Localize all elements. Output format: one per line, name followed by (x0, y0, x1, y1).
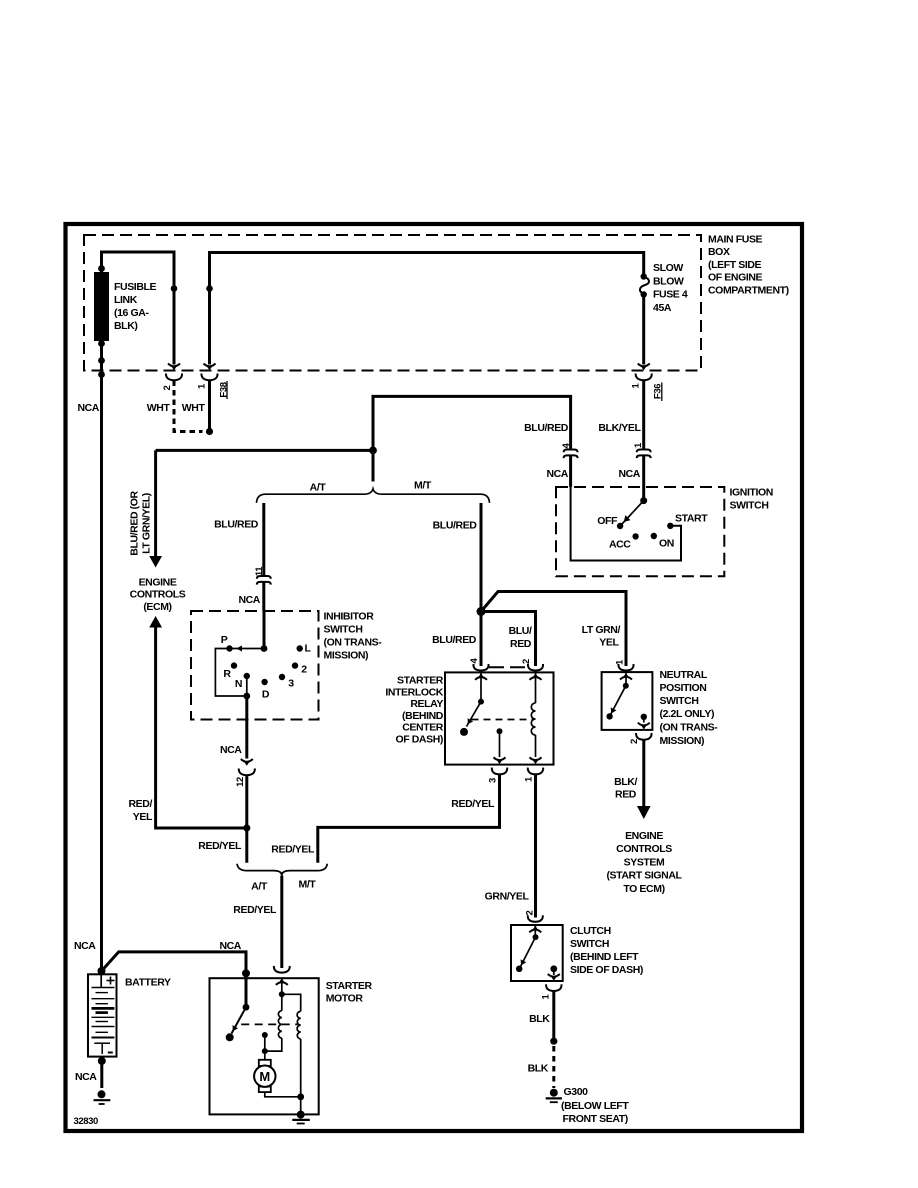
label BLU/ RED (509, 625, 532, 650)
node motor/coil1 junction (262, 1048, 268, 1054)
neutral switch entry arrow (620, 673, 632, 680)
svg-text:NCA: NCA (75, 1071, 97, 1083)
wire fuse F4 to F36 (642, 296, 645, 365)
relay pin 3 contact (497, 728, 503, 734)
relay switch feed (480, 673, 482, 702)
node battery positive (98, 967, 106, 975)
svg-text:NCA: NCA (546, 468, 568, 480)
svg-text:BOX: BOX (708, 246, 730, 258)
svg-text:OF ENGINE: OF ENGINE (708, 272, 763, 284)
wire ECM feed down (154, 450, 157, 556)
contact N (244, 673, 250, 679)
neutral switch blade (608, 686, 625, 717)
svg-text:BLOW: BLOW (653, 275, 684, 287)
arrow to engine controls system (637, 806, 651, 819)
neutral position switch box (602, 672, 653, 730)
contact ON (651, 533, 657, 539)
node starter NCA branch (242, 969, 250, 977)
svg-text:YEL: YEL (133, 811, 153, 823)
main fuse box (dashed outline) (84, 235, 701, 371)
label LT GRN/ YEL (582, 624, 621, 649)
node on F38-2 drop (171, 285, 178, 292)
svg-text:BLK: BLK (528, 1063, 549, 1075)
svg-text:COMPARTMENT): COMPARTMENT) (708, 284, 789, 296)
ground G300 (546, 1089, 562, 1103)
clutch output contact (550, 965, 557, 972)
arrow from ECM (RED/YEL return) (149, 616, 162, 628)
starter entry arrow (276, 978, 288, 985)
contact 2 (292, 662, 298, 668)
starter solenoid blade (230, 1007, 246, 1033)
svg-text:45A: 45A (653, 302, 672, 314)
contact ACC (632, 533, 638, 539)
node WHT junction (206, 428, 213, 435)
ignition switch label (730, 487, 773, 512)
svg-text:CONTROLS: CONTROLS (130, 589, 186, 601)
clutch switch label (570, 925, 643, 976)
node starter solenoid pivot (243, 1004, 250, 1011)
node motor ground junction (297, 1093, 304, 1100)
fuse F4 label (653, 262, 688, 314)
wire BLK/YEL to switch common (642, 455, 645, 500)
node neutral blade top (623, 683, 629, 689)
svg-text:BLK/: BLK/ (614, 776, 637, 788)
svg-text:3: 3 (488, 778, 499, 783)
connector relay pin 1 cup (528, 768, 543, 775)
svg-text:SWITCH: SWITCH (730, 500, 769, 512)
svg-text:(ON TRANS-: (ON TRANS- (660, 722, 719, 734)
inline connector 11 (257, 576, 271, 585)
relay pin 2 entry arrow (530, 673, 542, 680)
relay switch blade (465, 702, 481, 727)
svg-text:NEUTRAL: NEUTRAL (660, 669, 708, 681)
svg-text:POSITION: POSITION (660, 682, 707, 694)
svg-text:SWITCH: SWITCH (570, 938, 609, 950)
svg-text:RED/YEL: RED/YEL (451, 798, 495, 810)
svg-text:OFF: OFF (597, 515, 618, 527)
clutch pin 1 exit arrow (548, 974, 560, 981)
brace A/T-M/T split (257, 489, 490, 503)
wire motor to ground (265, 1092, 301, 1097)
svg-text:ON: ON (659, 538, 674, 550)
wire P to N to output (215, 649, 246, 697)
fusible link body (94, 272, 109, 341)
svg-text:12: 12 (235, 777, 246, 787)
svg-text:ACC: ACC (609, 539, 631, 551)
starter blade contact (226, 1033, 234, 1041)
connector F36 pin 1 arrow (638, 364, 650, 371)
connector name F36 (653, 383, 664, 402)
relay pin 1 exit arrow (530, 757, 542, 764)
svg-text:A/T: A/T (310, 482, 327, 494)
brace A/T-M/T merge (237, 864, 327, 876)
border frame (66, 224, 803, 1131)
svg-text:D: D (262, 689, 270, 701)
wire NCA battery to starter motor (102, 952, 247, 1007)
contact START (667, 523, 673, 529)
ignition switch box (dashed) (556, 487, 724, 576)
svg-text:WHT: WHT (147, 402, 171, 414)
svg-text:FRONT SEAT): FRONT SEAT) (563, 1113, 628, 1125)
battery box (88, 974, 117, 1056)
svg-text:NCA: NCA (238, 594, 260, 606)
starter solenoid feed (281, 978, 283, 994)
node BLU/RED junction (369, 447, 377, 455)
solenoid coil 2 (282, 994, 301, 1114)
clutch switch box (511, 925, 563, 981)
connector F38 pin 2 cup (166, 374, 182, 381)
starter motor contact (262, 1032, 268, 1038)
svg-text:LT GRN/: LT GRN/ (582, 624, 621, 636)
arrow to ENGINE CONTROLS (ECM) (149, 556, 162, 568)
connector F38 pin 1 arrow (204, 364, 216, 371)
svg-text:11: 11 (254, 566, 265, 576)
neutral output contact (641, 714, 647, 720)
wire inhibitor output down (245, 696, 248, 759)
fusible link label (114, 281, 157, 332)
node at fuse box edge (98, 371, 105, 378)
svg-text:NCA: NCA (219, 940, 241, 952)
connector relay pin 4 cup (473, 664, 488, 671)
inhibitor switch box (dashed) (191, 611, 319, 720)
node RED/YEL junction (243, 824, 250, 831)
svg-text:MAIN FUSE: MAIN FUSE (708, 234, 763, 246)
svg-text:2: 2 (629, 739, 640, 744)
svg-text:NCA: NCA (77, 402, 99, 414)
node clutch blade top (533, 934, 539, 940)
svg-text:3: 3 (288, 678, 294, 690)
svg-text:BLK: BLK (529, 1013, 550, 1025)
wire battery negative (100, 1057, 103, 1088)
wire BLU/RED ignition pin4 riser (373, 396, 571, 450)
svg-text:(BEHIND: (BEHIND (402, 710, 444, 722)
battery plates (92, 988, 115, 1038)
svg-text:BLU/RED (OR: BLU/RED (OR (129, 490, 141, 555)
svg-text:STARTER: STARTER (326, 980, 373, 992)
connector neutral switch pin 1 cup (618, 664, 633, 671)
label BLU/RED (OR LT GRN/YEL) rotated (129, 490, 153, 555)
node inhibitor output (243, 693, 250, 700)
wire M/T branch BLU/RED (480, 503, 483, 612)
relay coil (531, 673, 535, 757)
svg-text:(BEHIND LEFT: (BEHIND LEFT (570, 951, 639, 963)
wire ignition pin4 into box (569, 455, 572, 487)
inline connector 1 (BLK/YEL) (637, 450, 651, 459)
contact L (297, 645, 303, 651)
neutral position switch label (660, 669, 719, 747)
neutral blade contact (606, 713, 612, 719)
node switch pivot (640, 497, 647, 504)
svg-text:LT GRN/YEL): LT GRN/YEL) (141, 493, 153, 554)
relay pin 3 exit arrow (494, 757, 506, 764)
fuse F4 slow blow (45A) (640, 273, 649, 297)
motor M (254, 1060, 275, 1092)
svg-text:32830: 32830 (74, 1116, 99, 1127)
node below fusible link (98, 357, 105, 364)
wire N stub (246, 676, 248, 696)
inhibitor switch label (324, 611, 383, 662)
svg-text:(ECM): (ECM) (143, 601, 171, 613)
contact OFF (617, 523, 623, 529)
wire bus to slow blow fuse and F38 pin 1 (210, 253, 644, 365)
clutch switch entry arrow (529, 926, 541, 933)
svg-text:NCA: NCA (618, 468, 640, 480)
neutral pin 2 exit arrow (638, 723, 650, 730)
wire fusible link bottom / NCA to battery (100, 341, 103, 971)
wire into inhibitor switch (262, 582, 265, 649)
wire F38 pin 1 to WHT junction (208, 381, 211, 432)
ground battery (94, 1090, 111, 1104)
svg-text:SWITCH: SWITCH (324, 624, 363, 636)
wire to neutral position switch (LT GRN/YEL) (481, 592, 626, 667)
svg-text:RED/: RED/ (129, 798, 153, 810)
wire to relay pin 2 (481, 612, 536, 667)
connector relay pin 3 cup (492, 768, 507, 775)
node fusible link top (98, 265, 105, 272)
svg-text:MISSION): MISSION) (660, 735, 705, 747)
svg-text:BLU/RED: BLU/RED (524, 422, 569, 434)
svg-text:BLU/RED: BLU/RED (214, 519, 259, 531)
contact 3 (279, 674, 285, 680)
label BLK/ RED (614, 776, 637, 801)
svg-text:RED/YEL: RED/YEL (271, 844, 315, 856)
svg-text:G300: G300 (564, 1086, 589, 1098)
svg-text:L: L (304, 643, 311, 655)
svg-text:SYSTEM: SYSTEM (624, 856, 665, 868)
svg-text:(2.2L ONLY): (2.2L ONLY) (660, 708, 715, 720)
clutch switch blade (518, 937, 535, 968)
wire to relay pin 4 (480, 612, 483, 667)
svg-text:F38: F38 (218, 382, 229, 397)
svg-text:GRN/YEL: GRN/YEL (485, 891, 530, 903)
svg-text:(ON TRANS-: (ON TRANS- (324, 637, 383, 649)
connector name F38 (218, 381, 229, 399)
starter motor label (326, 980, 373, 1005)
svg-text:NCA: NCA (220, 744, 242, 756)
svg-text:RELAY: RELAY (410, 698, 443, 710)
ground starter motor (292, 1111, 310, 1124)
relay mechanical link (dashed) (472, 719, 535, 721)
svg-text:(16 GA-: (16 GA- (114, 307, 149, 319)
starter mechanical link (dashed) (241, 1023, 297, 1025)
svg-text:IGNITION: IGNITION (730, 487, 773, 499)
svg-text:ENGINE: ENGINE (625, 830, 663, 842)
svg-text:RED: RED (615, 789, 637, 801)
svg-text:LINK: LINK (114, 294, 138, 306)
contact R (231, 662, 237, 668)
svg-text:CENTER: CENTER (402, 722, 444, 734)
node relay switch pivot (478, 699, 484, 705)
svg-text:BLK/YEL: BLK/YEL (598, 422, 641, 434)
svg-text:INTERLOCK: INTERLOCK (385, 686, 443, 698)
svg-text:FUSE 4: FUSE 4 (653, 289, 688, 301)
svg-text:START: START (675, 513, 708, 525)
svg-text:2: 2 (162, 385, 173, 390)
inhibitor wiper to P (230, 645, 265, 651)
starter interlock relay label (385, 675, 443, 746)
node on F38-1 drop (206, 285, 213, 292)
wire BLK solid (552, 991, 555, 1041)
svg-text:(LEFT SIDE: (LEFT SIDE (708, 259, 762, 271)
svg-text:P: P (221, 634, 228, 646)
svg-text:SLOW: SLOW (653, 262, 683, 274)
contact P (226, 645, 232, 651)
connector neutral pin 2 cup (636, 733, 651, 740)
battery plus symbol (107, 977, 115, 985)
connector relay pin 2 cup (528, 664, 543, 671)
node battery negative (98, 1057, 106, 1065)
svg-text:STARTER: STARTER (397, 675, 444, 687)
wire WHT dashed jumper (174, 381, 203, 432)
svg-text:ENGINE: ENGINE (139, 577, 177, 589)
wire BLK/RED down (642, 740, 645, 807)
connector clutch pin 2 cup (528, 915, 543, 922)
solenoid coil 1 (265, 994, 282, 1051)
svg-text:RED/YEL: RED/YEL (198, 840, 242, 852)
label ENGINE CONTROLS SYSTEM (606, 830, 682, 895)
wire ignition internal START path (571, 487, 681, 561)
relay pin 3 wire (499, 731, 501, 757)
svg-text:R: R (223, 668, 231, 680)
battery internal feed (100, 974, 102, 987)
svg-text:WHT: WHT (182, 402, 206, 414)
label G300 (BELOW LEFT FRONT SEAT) (561, 1086, 629, 1125)
ignition switch blade (620, 501, 644, 526)
connector 12 arrow (241, 759, 253, 766)
wire GRN/YEL relay pin 1 to clutch switch (534, 775, 537, 918)
svg-text:SWITCH: SWITCH (660, 695, 699, 707)
inline connector 4 (BLU/RED) (564, 450, 578, 459)
contact D (261, 679, 267, 685)
svg-text:TO ECM): TO ECM) (623, 883, 664, 895)
battery minus symbol (108, 1052, 113, 1054)
node BLK splice (550, 1038, 557, 1045)
svg-text:BLK): BLK) (114, 320, 137, 332)
connector starter input cup (274, 966, 290, 973)
svg-text:CONTROLS: CONTROLS (616, 843, 672, 855)
svg-text:2: 2 (301, 664, 307, 676)
node solenoid coils junction (279, 991, 285, 997)
svg-text:INHIBITOR: INHIBITOR (324, 611, 375, 623)
battery negative tee (94, 1043, 110, 1054)
wire BLK dashed (552, 1046, 555, 1088)
neutral output wire (643, 717, 645, 723)
label ENGINE CONTROLS (ECM) (130, 577, 186, 614)
connector 12 cup (239, 769, 255, 776)
clutch output wire (553, 969, 555, 975)
wire A/T branch BLU/RED (262, 503, 265, 576)
svg-text:N: N (235, 678, 242, 690)
wire motor feed (264, 1035, 266, 1060)
svg-text:OF DASH): OF DASH) (395, 734, 443, 746)
svg-text:BLU/: BLU/ (509, 625, 532, 637)
clutch feed (534, 926, 536, 937)
wire BLU/RED to ECM branch (156, 449, 373, 452)
connector clutch pin 1 cup (546, 984, 561, 991)
connector F38 pin 2 arrow (168, 364, 180, 371)
wire RED/YEL to A/T merge (245, 776, 248, 863)
svg-text:2: 2 (525, 910, 536, 915)
connector housing dashes (489, 666, 527, 668)
wire RED/YEL relay pin 3 to M/T merge (318, 775, 500, 863)
svg-text:SIDE OF DASH): SIDE OF DASH) (570, 964, 643, 976)
svg-text:CLUTCH: CLUTCH (570, 925, 611, 937)
svg-text:A/T: A/T (251, 881, 268, 893)
wire BLK/YEL F36 to ignition switch (642, 381, 645, 450)
svg-text:M/T: M/T (299, 879, 317, 891)
connector F38 pin 1 cup (201, 374, 217, 381)
svg-text:M: M (259, 1069, 270, 1084)
svg-text:BATTERY: BATTERY (125, 977, 171, 989)
svg-text:RED: RED (510, 638, 532, 650)
svg-text:M/T: M/T (414, 480, 432, 492)
relay pin 4 entry arrow (475, 673, 487, 680)
relay contact (460, 728, 468, 736)
wire RED/YEL to starter motor (280, 876, 283, 968)
svg-text:BLU/RED: BLU/RED (432, 634, 477, 646)
starter motor box (210, 978, 319, 1114)
node inhibitor common (261, 645, 268, 652)
node M/T junction (477, 607, 486, 616)
svg-text:MOTOR: MOTOR (326, 993, 364, 1005)
wire fusible link top bus to F38 pin 2 (102, 252, 175, 365)
svg-text:(BELOW LEFT: (BELOW LEFT (561, 1100, 629, 1112)
label RED/ YEL (129, 798, 153, 823)
wire RED/YEL return (156, 628, 247, 829)
svg-text:2: 2 (521, 659, 532, 664)
node fusible link bottom (98, 340, 105, 347)
svg-text:(START SIGNAL: (START SIGNAL (606, 870, 682, 882)
svg-text:RED/YEL: RED/YEL (233, 904, 277, 916)
svg-text:YEL: YEL (599, 637, 619, 649)
svg-text:MISSION): MISSION) (324, 650, 369, 662)
wire junction to A/T-M/T brace (372, 450, 375, 481)
neutral switch feed (625, 673, 627, 686)
starter interlock relay box (445, 672, 554, 764)
svg-text:BLU/RED: BLU/RED (433, 520, 478, 532)
svg-text:FUSIBLE: FUSIBLE (114, 281, 157, 293)
main fuse box label (708, 234, 789, 297)
svg-text:NCA: NCA (74, 940, 96, 952)
clutch blade contact (516, 966, 523, 973)
connector F36 pin 1 cup (636, 374, 652, 381)
